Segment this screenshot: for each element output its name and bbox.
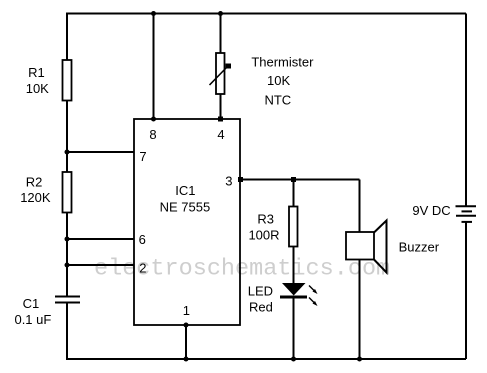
junction node pin6 bbox=[65, 237, 70, 242]
junction top rail thermistor bbox=[218, 11, 223, 16]
wire R1 to node7 bbox=[66, 101, 68, 173]
junction top rail pin8 bbox=[151, 11, 156, 16]
junction pin8 at IC bbox=[151, 117, 156, 122]
buzzer horn bbox=[374, 221, 387, 273]
junction node pin7 bbox=[65, 150, 70, 155]
svg-text:Red: Red bbox=[249, 300, 273, 315]
svg-text:4: 4 bbox=[217, 127, 224, 142]
junction node R3 top bbox=[291, 177, 296, 182]
wire buzzer to bottom rail bbox=[359, 260, 361, 360]
resistor R1 bbox=[63, 60, 72, 101]
wire pin 1 vertical bbox=[185, 325, 187, 359]
junction LED bottom rail bbox=[291, 357, 296, 362]
svg-text:100R: 100R bbox=[248, 228, 279, 243]
wire bottom rail bbox=[66, 358, 466, 360]
wire pin 3 bbox=[240, 179, 360, 181]
buzzer BZ1 box bbox=[346, 232, 374, 260]
LED D1 triangle bbox=[282, 283, 306, 296]
svg-text:6: 6 bbox=[139, 232, 146, 247]
battery B1 9V bbox=[456, 206, 477, 222]
wire R3 to LED bbox=[293, 247, 295, 284]
LED light arrow 1 bbox=[309, 286, 318, 295]
junction pin1 at IC bbox=[184, 323, 189, 328]
LED light arrow 2 bbox=[309, 298, 318, 307]
svg-text:2: 2 bbox=[139, 261, 146, 276]
thermistor diagonal foot bbox=[226, 64, 232, 69]
svg-text:7: 7 bbox=[139, 149, 146, 164]
wire left rail upper bbox=[66, 14, 68, 62]
svg-text:Thermister: Thermister bbox=[251, 55, 314, 70]
thermistor diagonal bbox=[210, 66, 229, 85]
wire right rail bbox=[465, 14, 467, 207]
wire thermistor to pin 4 bbox=[220, 94, 222, 119]
wire pin 6 bbox=[67, 238, 134, 240]
junction pin4 at IC bbox=[218, 117, 223, 122]
resistor R3 bbox=[289, 207, 298, 247]
svg-text:8: 8 bbox=[149, 127, 156, 142]
svg-text:10K: 10K bbox=[267, 73, 290, 88]
capacitor C1 bbox=[55, 297, 80, 303]
junction node pin2 bbox=[65, 263, 70, 268]
junction pin3 at IC bbox=[238, 177, 243, 182]
svg-text:LED: LED bbox=[248, 284, 273, 299]
IC U1 timer IC1 NE 7555 box bbox=[134, 119, 240, 325]
svg-text:120K: 120K bbox=[20, 190, 51, 205]
thermistor TH1 body bbox=[216, 53, 225, 94]
wire buzzer top bbox=[359, 180, 361, 233]
LED cathode bar bbox=[280, 296, 307, 299]
svg-text:R3: R3 bbox=[257, 212, 274, 227]
wire pin 2 bbox=[67, 264, 134, 266]
svg-text:IC1: IC1 bbox=[175, 183, 195, 198]
svg-text:1: 1 bbox=[183, 303, 190, 318]
junction buzzer bottom rail bbox=[357, 357, 362, 362]
junction pin1 bottom rail bbox=[184, 357, 189, 362]
svg-text:9V DC: 9V DC bbox=[412, 203, 450, 218]
svg-text:0.1 uF: 0.1 uF bbox=[14, 312, 51, 327]
wire thermistor top bbox=[220, 14, 222, 54]
wire R2 to C1 bbox=[66, 213, 68, 297]
svg-text:NTC: NTC bbox=[264, 92, 291, 107]
wire LED to bottom rail bbox=[293, 297, 295, 359]
wire pin 8 vertical bbox=[153, 14, 155, 120]
wire R3 top bbox=[293, 180, 295, 208]
svg-text:C1: C1 bbox=[23, 296, 40, 311]
svg-text:R1: R1 bbox=[28, 65, 45, 80]
resistor R2 bbox=[63, 172, 72, 213]
wire top rail bbox=[66, 13, 466, 15]
svg-text:Buzzer: Buzzer bbox=[399, 239, 440, 254]
svg-text:10K: 10K bbox=[26, 81, 49, 96]
svg-text:3: 3 bbox=[225, 174, 232, 189]
wire battery to bottom rail bbox=[465, 222, 467, 359]
svg-text:R2: R2 bbox=[26, 175, 43, 190]
svg-text:NE 7555: NE 7555 bbox=[160, 200, 211, 215]
wire C1 to bottom rail bbox=[66, 303, 68, 360]
wire pin 7 bbox=[67, 151, 134, 153]
